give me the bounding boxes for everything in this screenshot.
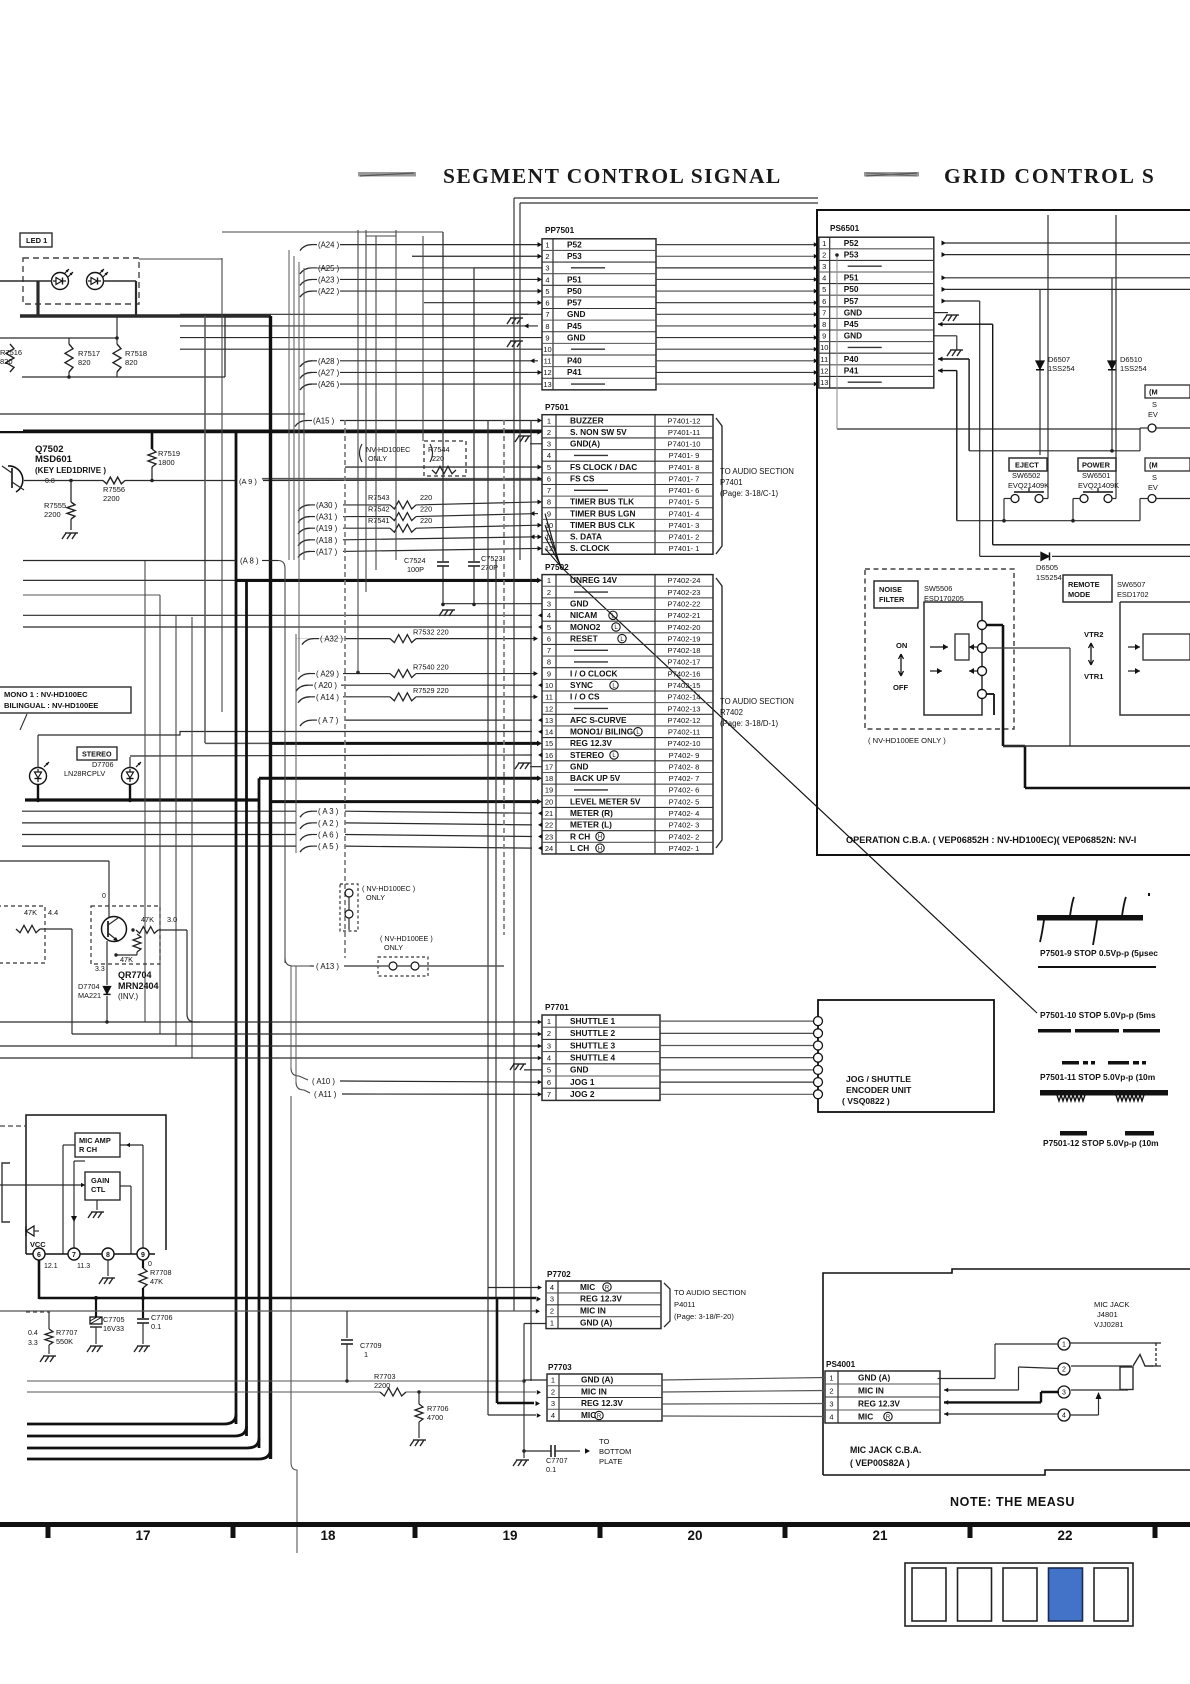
svg-text:3.3: 3.3 <box>28 1340 38 1347</box>
svg-text:0: 0 <box>102 893 106 900</box>
svg-text:P41: P41 <box>844 365 859 375</box>
svg-text:8: 8 <box>822 320 826 329</box>
svg-text:20: 20 <box>545 797 553 806</box>
svg-text:P7401-10: P7401-10 <box>668 440 701 449</box>
wire P7501 pin8 + node A30 + resistor R7543 220 <box>298 493 542 511</box>
wires mic amp internal <box>63 1143 143 1254</box>
svg-text:P7401- 4: P7401- 4 <box>669 509 700 518</box>
svg-text:P7401- 8: P7401- 8 <box>669 463 700 472</box>
svg-text:P7502: P7502 <box>545 563 569 572</box>
svg-text:METER (L): METER (L) <box>570 820 612 830</box>
grid control signal legend line <box>864 172 919 177</box>
svg-text:1: 1 <box>550 1318 554 1327</box>
svg-text:C7706: C7706 <box>151 1313 173 1322</box>
svg-text:R7543: R7543 <box>368 493 390 502</box>
svg-text:(A24 ): (A24 ) <box>318 241 340 250</box>
svg-text:2200: 2200 <box>374 1381 390 1390</box>
svg-text:MRN2404: MRN2404 <box>118 981 159 991</box>
svg-text:NV-HD100EC: NV-HD100EC <box>366 445 410 454</box>
wire P7502 pin14 MONO1/BILING <box>538 729 543 734</box>
dashed cable marker left <box>344 420 346 958</box>
wire P7502 pin22 METER(L) + node A2 <box>22 819 543 829</box>
svg-text:(A 9 ): (A 9 ) <box>239 477 257 486</box>
wire mesh top horizontals <box>139 232 474 268</box>
diode D6510 1SS254 <box>1108 355 1147 451</box>
svg-text:I / O CS: I / O CS <box>570 692 600 702</box>
svg-text:7: 7 <box>72 1252 76 1259</box>
wire PS6501 pin11 <box>938 357 969 451</box>
svg-text:SHUTTLE 3: SHUTTLE 3 <box>570 1040 616 1050</box>
transistor QR7704 MRN2404 <box>91 906 160 1001</box>
svg-text:GND(A): GND(A) <box>570 439 600 449</box>
svg-text:MIC: MIC <box>581 1410 596 1420</box>
wire P7502 pin9 I/O CLOCK + node A29 + resistor R7540 220 <box>298 663 538 680</box>
svg-text:D6510: D6510 <box>1120 355 1142 364</box>
svg-text:P7402-20: P7402-20 <box>668 623 701 632</box>
wire P7501 pin3 ground <box>515 436 542 444</box>
svg-text:8: 8 <box>106 1252 110 1259</box>
svg-text:BOTTOM: BOTTOM <box>599 1447 631 1456</box>
svg-text:P7402-22: P7402-22 <box>668 600 701 609</box>
svg-text:( NV-HD100EC ): ( NV-HD100EC ) <box>362 884 415 893</box>
svg-text:MSD601: MSD601 <box>35 454 73 465</box>
svg-text:R: R <box>886 1415 891 1421</box>
svg-text:5: 5 <box>822 285 826 294</box>
wire PS6501 pin12 <box>938 368 957 521</box>
pointer diagonal to waveform P7501-10 label <box>560 566 1037 1013</box>
wire remote line y450.8 <box>969 449 1140 453</box>
svg-text:TIMER BUS LGN: TIMER BUS LGN <box>570 508 635 518</box>
svg-text:PS6501: PS6501 <box>830 224 860 233</box>
wire vertical to ruler <box>291 1096 297 1553</box>
wire PS6501 pin2 out <box>942 252 1190 257</box>
svg-text:SEGMENT CONTROL SIGNAL: SEGMENT CONTROL SIGNAL <box>443 164 782 188</box>
svg-text:VJJ0281: VJJ0281 <box>1094 1320 1124 1329</box>
wire A-pigtail verticals <box>289 250 304 853</box>
svg-text:14: 14 <box>545 728 553 737</box>
svg-text:220: 220 <box>420 505 432 514</box>
svg-text:P7402-24: P7402-24 <box>668 576 701 585</box>
svg-text:1: 1 <box>547 1017 551 1026</box>
svg-text:P7501-9 STOP 0.5Vp-p (5μsec: P7501-9 STOP 0.5Vp-p (5μsec <box>1040 948 1158 958</box>
svg-text:4: 4 <box>547 1054 551 1063</box>
resistor 47K collector <box>131 915 200 1022</box>
svg-text:R7707: R7707 <box>56 1328 78 1337</box>
svg-text:D6505: D6505 <box>1036 563 1058 572</box>
svg-text:( NV-HD100EE ): ( NV-HD100EE ) <box>380 934 433 943</box>
svg-text:(A18 ): (A18 ) <box>316 536 338 545</box>
wire jack pin1 <box>938 1343 1153 1379</box>
wire P7702 pin2 arrow <box>536 1309 540 1314</box>
svg-text:S. CLOCK: S. CLOCK <box>570 543 610 553</box>
svg-text:P53: P53 <box>567 251 582 261</box>
svg-text:P7501-10 STOP 5.0Vp-p (5ms: P7501-10 STOP 5.0Vp-p (5ms <box>1040 1010 1156 1020</box>
block MIC AMP R CH <box>75 1133 120 1157</box>
svg-text:0.4: 0.4 <box>28 1330 38 1337</box>
svg-text:MIC: MIC <box>580 1282 595 1292</box>
wire PS6501 pin5 out <box>942 287 1190 355</box>
svg-text:820: 820 <box>0 357 13 366</box>
svg-text:NICAM: NICAM <box>570 610 597 620</box>
wire P7502 pin23 R CH + node A6 <box>22 831 543 841</box>
svg-text:4700: 4700 <box>427 1413 443 1422</box>
svg-text:R7516: R7516 <box>0 348 22 357</box>
connector P7702 <box>546 1270 661 1329</box>
LED D7502 <box>87 269 109 290</box>
svg-text:P7401- 1: P7401- 1 <box>669 544 700 553</box>
svg-text:S: S <box>1152 473 1157 482</box>
svg-text:P7401- 5: P7401- 5 <box>669 498 700 507</box>
svg-text:47K: 47K <box>24 908 37 917</box>
wire resistor bottom bus y377 <box>22 316 225 379</box>
svg-text:19: 19 <box>545 786 553 795</box>
wire PP7501 pin10 <box>180 348 542 350</box>
svg-text:TIMER BUS CLK: TIMER BUS CLK <box>570 520 635 530</box>
ruler bar <box>0 1522 1190 1538</box>
circled H on PS4001 pin4 <box>884 1412 892 1421</box>
svg-text:MIC JACK: MIC JACK <box>1094 1300 1129 1309</box>
svg-text:REG 12.3V: REG 12.3V <box>570 738 612 748</box>
svg-text:SYNC: SYNC <box>570 680 593 690</box>
svg-text:47K: 47K <box>120 955 133 964</box>
bracket TO AUDIO SECTION P7402 <box>716 578 794 848</box>
svg-text:GND: GND <box>844 307 862 317</box>
connector P7701 <box>542 1003 660 1100</box>
wire switch common y520.7 <box>957 519 1140 523</box>
svg-text:4: 4 <box>545 275 549 284</box>
wire PS6501 pin1 out <box>942 241 1190 246</box>
svg-text:13: 13 <box>545 716 553 725</box>
LED D7706 LN28RCPLV stereo <box>64 757 141 800</box>
wire P7502 pin4 NICAM <box>23 613 543 618</box>
operation c.b.a. board outline <box>817 210 1190 855</box>
svg-text:( A13 ): ( A13 ) <box>316 962 339 971</box>
svg-text:1: 1 <box>822 239 826 248</box>
svg-text:R7555: R7555 <box>44 501 66 510</box>
svg-text:MONO1/ BILING: MONO1/ BILING <box>570 727 633 737</box>
svg-text:3.0: 3.0 <box>167 915 177 924</box>
svg-text:(A19 ): (A19 ) <box>316 524 338 533</box>
svg-text:REMOTE: REMOTE <box>1068 580 1100 589</box>
svg-text:(KEY LED1DRIVE ): (KEY LED1DRIVE ) <box>35 466 106 475</box>
svg-text:( A14 ): ( A14 ) <box>316 693 339 702</box>
label MIC JACK J4801 VJJ0281 <box>1094 1300 1129 1329</box>
svg-text:(A28 ): (A28 ) <box>318 357 340 366</box>
capacitor C7524 100P <box>404 232 449 604</box>
svg-text:L CH: L CH <box>570 843 589 853</box>
wire base line y480 <box>35 480 103 482</box>
resistor 47K feedback <box>114 934 141 964</box>
svg-text:P50: P50 <box>567 286 582 296</box>
svg-text:C7709: C7709 <box>360 1341 382 1350</box>
mic jack c.b.a. board outline <box>823 1269 1190 1475</box>
labels VTR2/VTR1 <box>1084 630 1104 681</box>
svg-text:23: 23 <box>545 832 553 841</box>
left edge bracket <box>2 1163 10 1222</box>
svg-text:P7402- 9: P7402- 9 <box>669 751 700 760</box>
ground Q7502 <box>62 533 78 539</box>
svg-text:220: 220 <box>432 454 444 463</box>
svg-text:(A17 ): (A17 ) <box>316 547 338 556</box>
svg-text:C7524: C7524 <box>404 556 426 565</box>
svg-text:(A 8 ): (A 8 ) <box>240 557 259 566</box>
svg-text:16: 16 <box>545 751 553 760</box>
svg-text:(A31 ): (A31 ) <box>316 513 338 522</box>
wire P7703 pin1 link <box>524 1379 547 1381</box>
wire P7502 pin13 AFC S-CURVE + node A7 <box>300 716 543 726</box>
svg-text:6: 6 <box>547 1078 551 1087</box>
svg-text:P41: P41 <box>567 367 582 377</box>
svg-text:13: 13 <box>820 378 828 387</box>
svg-text:R: R <box>605 1285 610 1291</box>
svg-text:220: 220 <box>420 493 432 502</box>
svg-text:P53: P53 <box>844 249 859 259</box>
wire P7501 pin10 + node A19 + resistor R7541 220 <box>298 516 542 534</box>
svg-text:21: 21 <box>872 1528 888 1543</box>
svg-text:0.1: 0.1 <box>151 1322 161 1331</box>
svg-text:P7402- 5: P7402- 5 <box>669 797 700 806</box>
wire PP7501 pin1 + node A24 <box>300 241 542 251</box>
wire thick vertical bus (x236-270) <box>236 316 271 1459</box>
dashed LED enclosure <box>23 258 139 304</box>
wire PP7501 pin5 + node A22 <box>300 287 542 297</box>
block GAIN CTL <box>0 1172 120 1218</box>
svg-text:R7519: R7519 <box>158 449 180 458</box>
resistor R7519 1800 <box>148 431 180 481</box>
svg-text:18: 18 <box>320 1528 336 1543</box>
svg-text:11: 11 <box>820 355 828 364</box>
svg-text:VTR1: VTR1 <box>1084 672 1104 681</box>
svg-text:SHUTTLE 4: SHUTTLE 4 <box>570 1053 616 1063</box>
svg-text:12: 12 <box>820 366 828 375</box>
wire PP7501 pin11 + node A28 <box>300 357 538 367</box>
wire PP7501 pin8 <box>180 323 538 328</box>
svg-text:GND: GND <box>844 331 862 341</box>
node A8 <box>23 557 285 964</box>
wire thick REG branch to P7703 <box>497 1298 540 1406</box>
svg-text:JOG 1: JOG 1 <box>570 1077 595 1087</box>
svg-text:P7501-11 STOP 5.0Vp-p (10m: P7501-11 STOP 5.0Vp-p (10m <box>1040 1072 1155 1082</box>
noise filter block (NV-HD100EE ONLY) <box>865 569 1014 745</box>
svg-text:METER (R): METER (R) <box>570 808 613 818</box>
node A10 <box>291 966 542 1086</box>
svg-text:(A26 ): (A26 ) <box>318 380 340 389</box>
svg-text:8: 8 <box>547 658 551 667</box>
svg-text:SW6502: SW6502 <box>1012 471 1040 480</box>
svg-text:2: 2 <box>545 252 549 261</box>
svg-text:2200: 2200 <box>103 494 120 503</box>
svg-text:LED 1: LED 1 <box>26 236 47 245</box>
svg-text:EV: EV <box>1148 483 1158 492</box>
svg-text:AFC S-CURVE: AFC S-CURVE <box>570 715 627 725</box>
svg-text:S: S <box>1152 400 1157 409</box>
transistor Q7502 MSD601 <box>2 444 106 492</box>
svg-text:LN28RCPLV: LN28RCPLV <box>64 769 105 778</box>
svg-text:P40: P40 <box>844 354 859 364</box>
wire pin8 line y544.8 <box>993 544 1190 546</box>
wire PP7501 pin3 + node A25 <box>300 264 542 274</box>
svg-text:LEVEL METER 5V: LEVEL METER 5V <box>570 796 641 806</box>
svg-text:P7701: P7701 <box>545 1003 569 1012</box>
wire PP7501 pin9 + ground <box>180 338 542 347</box>
svg-text:MONO 1 : NV-HD100EC: MONO 1 : NV-HD100EC <box>4 690 88 699</box>
svg-text:PS4001: PS4001 <box>826 1360 856 1369</box>
svg-text:(M: (M <box>1149 388 1158 397</box>
svg-text:MIC AMP: MIC AMP <box>79 1136 111 1145</box>
svg-text:15: 15 <box>545 739 553 748</box>
wire P7502 pin21 METER(R) + node A3 <box>22 807 543 817</box>
svg-text:19: 19 <box>502 1528 517 1543</box>
svg-text:ONLY: ONLY <box>366 893 385 902</box>
wire P7502 pin11 I/O CS + node A14 + resistor R7529 220 <box>298 686 538 703</box>
svg-text:R7542: R7542 <box>368 505 390 514</box>
wire PP7501 pin13 + node A26 <box>300 380 542 390</box>
svg-text:SHUTTLE 2: SHUTTLE 2 <box>570 1028 616 1038</box>
wire top link to operation board <box>514 198 818 203</box>
svg-text:5: 5 <box>547 623 551 632</box>
svg-text:REG 12.3V: REG 12.3V <box>581 1398 623 1408</box>
svg-text:( NV-HD100EE ONLY ): ( NV-HD100EE ONLY ) <box>868 736 946 745</box>
svg-text:GND: GND <box>567 332 585 342</box>
svg-text:I / O CLOCK: I / O CLOCK <box>570 668 617 678</box>
svg-text:P50: P50 <box>844 284 859 294</box>
svg-text:6: 6 <box>545 299 549 308</box>
wire P7501 pin12 + node A17 <box>298 546 542 557</box>
svg-text:4: 4 <box>551 1411 555 1420</box>
svg-text:4: 4 <box>550 1283 554 1292</box>
connector PP7501 <box>542 226 656 390</box>
wire thick LED bus y800 <box>25 798 259 802</box>
svg-text:10: 10 <box>545 681 553 690</box>
diode D7704 MA221 <box>78 941 111 1022</box>
svg-text:P7402-17: P7402-17 <box>668 658 701 667</box>
remote mode label box <box>1063 575 1149 602</box>
connector P7703 <box>547 1363 662 1421</box>
svg-text:P7501-12 STOP 5.0Vp-p (10m: P7501-12 STOP 5.0Vp-p (10m <box>1043 1138 1159 1148</box>
wire S.NON 5V y432 <box>23 430 542 433</box>
wire P7501 pin6 <box>262 476 542 481</box>
svg-text:1SS254: 1SS254 <box>1120 364 1147 373</box>
svg-text:(A22 ): (A22 ) <box>318 287 340 296</box>
wire P7501 pin2 thick <box>0 430 542 435</box>
svg-text:MODE: MODE <box>1068 590 1090 599</box>
svg-text:6: 6 <box>37 1252 41 1259</box>
circled H on P7703 pin4 <box>595 1411 603 1420</box>
svg-text:( A 2 ): ( A 2 ) <box>318 819 339 828</box>
svg-text:P7402-13: P7402-13 <box>668 704 701 713</box>
svg-text:EV: EV <box>1148 410 1158 419</box>
svg-text:11.3: 11.3 <box>77 1263 90 1270</box>
resistor R7556 2200 <box>103 477 236 503</box>
wire PP7501 pin4 + node A23 <box>300 275 542 285</box>
switch EJECT SW6502 EVQ21409K <box>1004 458 1049 521</box>
ground pin8 <box>99 1260 115 1284</box>
connector PS4001 <box>825 1360 940 1423</box>
wire thick REG bus y1298 <box>39 1260 541 1301</box>
wire MIC IN upper y1311 <box>0 1310 536 1312</box>
switch SW6507 body (cut) <box>1120 602 1190 715</box>
capacitor C7705 16V33 <box>87 1298 125 1352</box>
wire PS6501 pin7 ground <box>934 313 959 321</box>
svg-text:S. DATA: S. DATA <box>570 532 602 542</box>
svg-text:5: 5 <box>547 1066 551 1075</box>
svg-text:0.1: 0.1 <box>546 1465 556 1474</box>
wire jack pin4 <box>944 1392 1102 1416</box>
option connector (NV-HD100EE ONLY) + node A13 <box>285 934 504 976</box>
svg-text:4.4: 4.4 <box>48 908 58 917</box>
pointer fan from P7501 pins 9-12 <box>545 514 563 569</box>
svg-text:SW6501: SW6501 <box>1082 471 1110 480</box>
svg-text:GND (A): GND (A) <box>580 1317 612 1327</box>
svg-text:4: 4 <box>547 611 551 620</box>
svg-text:1: 1 <box>545 240 549 249</box>
svg-text:24: 24 <box>545 844 553 853</box>
svg-text:H: H <box>598 846 602 852</box>
svg-text:3: 3 <box>829 1399 833 1408</box>
wire sensor line y429 <box>835 253 1140 429</box>
svg-text:P7402-19: P7402-19 <box>668 634 701 643</box>
svg-text:R CH: R CH <box>79 1145 97 1154</box>
svg-text:12: 12 <box>545 704 553 713</box>
svg-text:SW5506: SW5506 <box>924 584 952 593</box>
LED D7501 <box>52 269 74 290</box>
svg-text:MIC IN: MIC IN <box>580 1306 606 1316</box>
svg-text:18: 18 <box>545 774 553 783</box>
resistor R7708 47K <box>139 1260 172 1299</box>
svg-text:P52: P52 <box>567 239 582 249</box>
svg-text:3: 3 <box>551 1399 555 1408</box>
svg-text:MIC IN: MIC IN <box>858 1385 884 1395</box>
svg-text:6: 6 <box>822 297 826 306</box>
wire jack pin3 thick <box>944 1390 1128 1405</box>
svg-text:1S5254: 1S5254 <box>1036 573 1062 582</box>
svg-text:P7402-16: P7402-16 <box>668 669 701 678</box>
jack pin circles 1-4 <box>1058 1338 1070 1421</box>
svg-text:2: 2 <box>551 1387 555 1396</box>
svg-text:3: 3 <box>1062 1390 1066 1397</box>
svg-text:2: 2 <box>550 1307 554 1316</box>
LED D7705 mono <box>30 732 533 801</box>
svg-text:22: 22 <box>1057 1528 1072 1543</box>
dashed cable marker right <box>503 420 505 935</box>
svg-text:P57: P57 <box>844 296 859 306</box>
svg-text:D7706: D7706 <box>92 760 114 769</box>
svg-text:P7401- 2: P7401- 2 <box>669 533 700 542</box>
svg-text:TO: TO <box>599 1437 610 1446</box>
svg-text:P45: P45 <box>844 319 859 329</box>
svg-text:R7540 220: R7540 220 <box>413 663 449 672</box>
svg-text:820: 820 <box>78 358 91 367</box>
resistor R7703 2200 <box>374 1372 536 1396</box>
svg-text:R7541: R7541 <box>368 516 390 525</box>
bracket TO AUDIO SECTION P7401 <box>716 418 794 554</box>
svg-text:ESD1702: ESD1702 <box>1117 590 1149 599</box>
wire P7502 pin20 LEVEL METER thick <box>271 799 543 805</box>
svg-text:TO AUDIO SECTION: TO AUDIO SECTION <box>720 467 794 476</box>
switch (cut) right <box>1140 458 1190 521</box>
svg-text:P57: P57 <box>567 298 582 308</box>
svg-text:9: 9 <box>547 669 551 678</box>
wire vertical bus left-mid group <box>145 258 222 1058</box>
svg-text:R7532 220: R7532 220 <box>413 628 449 637</box>
svg-text:550K: 550K <box>56 1337 73 1346</box>
segment control signal legend line <box>358 172 416 177</box>
svg-text:P7402- 7: P7402- 7 <box>669 774 700 783</box>
label box MONO1/BILINGUAL <box>0 687 131 730</box>
svg-text:MIC JACK C.B.A.: MIC JACK C.B.A. <box>850 1445 921 1455</box>
svg-text:4: 4 <box>829 1412 833 1421</box>
svg-text:P7501: P7501 <box>545 403 569 412</box>
